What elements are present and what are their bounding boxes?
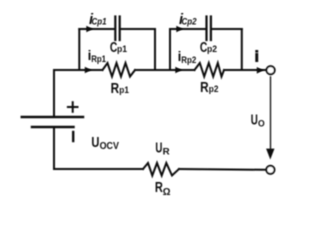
wire bottom rail left segment bbox=[54, 168, 143, 170]
svg-text:p2: p2 bbox=[207, 44, 217, 55]
arrowhead iCp2 bbox=[176, 26, 183, 33]
svg-text:p1: p1 bbox=[119, 85, 129, 96]
wire loop1 right vertical bbox=[154, 29, 156, 70]
svg-text:Cp2: Cp2 bbox=[182, 17, 198, 28]
arrowhead i output bbox=[257, 67, 264, 74]
resistor Rp2 zigzag bbox=[195, 63, 225, 77]
battery UOCV top plate bbox=[22, 116, 83, 119]
svg-text:R: R bbox=[111, 81, 120, 97]
wire middle rail to top terminal bbox=[224, 69, 266, 71]
svg-text:U: U bbox=[155, 141, 162, 157]
node bottom terminal circle bbox=[266, 166, 274, 174]
battery UOCV bottom plate bbox=[32, 126, 74, 129]
svg-text:Rp1: Rp1 bbox=[91, 54, 106, 65]
svg-text:Rp2: Rp2 bbox=[181, 55, 196, 66]
wire loop2 right vertical bbox=[241, 29, 243, 70]
svg-text:i: i bbox=[255, 50, 259, 66]
resistor Romega zigzag bbox=[143, 163, 179, 176]
wire UO arrow shaft bbox=[270, 77, 272, 149]
wire loop2 top left bbox=[170, 28, 206, 30]
wire loop1 top left bbox=[79, 28, 114, 30]
wire loop2 left vertical bbox=[169, 29, 171, 70]
svg-text:Ω: Ω bbox=[163, 186, 171, 198]
wire bottom rail right segment bbox=[179, 168, 266, 171]
battery minus mark bbox=[72, 132, 74, 141]
svg-text:p1: p1 bbox=[117, 44, 128, 55]
battery plus sign bbox=[68, 102, 78, 112]
svg-text:R: R bbox=[200, 80, 209, 96]
capacitor Cp2 bbox=[207, 17, 211, 41]
wire left branch lower bbox=[53, 128, 55, 169]
svg-text:U: U bbox=[251, 113, 258, 129]
arrowhead iRp2 bbox=[175, 67, 182, 74]
node top terminal circle bbox=[267, 66, 275, 74]
arrowhead iCp1 bbox=[86, 26, 93, 33]
svg-text:O: O bbox=[258, 118, 265, 129]
svg-text:p2: p2 bbox=[209, 84, 219, 95]
wire middle rail left segment (node A to Rp1) bbox=[54, 69, 103, 71]
wire loop1 left vertical bbox=[78, 29, 80, 70]
wire left branch upper bbox=[53, 70, 55, 116]
wire loop1 top right bbox=[121, 28, 155, 30]
svg-text:U: U bbox=[91, 135, 99, 151]
wire loop2 top right bbox=[212, 28, 242, 30]
wire middle rail between Rp1 and Rp2 bbox=[135, 69, 195, 71]
svg-text:Cp1: Cp1 bbox=[92, 17, 107, 28]
svg-text:R: R bbox=[163, 147, 170, 158]
arrowhead UO bbox=[266, 149, 274, 160]
resistor Rp1 zigzag bbox=[103, 63, 136, 77]
svg-text:OCV: OCV bbox=[100, 141, 120, 152]
capacitor Cp1 bbox=[115, 17, 119, 41]
arrowhead iRp1 bbox=[85, 67, 92, 74]
